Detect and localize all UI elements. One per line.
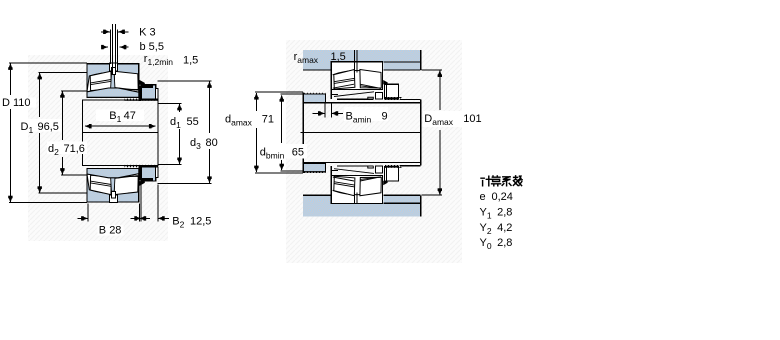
svg-text:b 5,5: b 5,5 bbox=[140, 41, 164, 53]
svg-text:D 110: D 110 bbox=[2, 97, 31, 109]
svg-text:1,5: 1,5 bbox=[331, 51, 346, 63]
svg-text:K 3: K 3 bbox=[139, 26, 156, 38]
svg-text:e: e bbox=[480, 191, 486, 203]
svg-text:d271,6: d271,6 bbox=[48, 143, 85, 157]
svg-text:B212,5: B212,5 bbox=[172, 215, 211, 229]
svg-text:1,5: 1,5 bbox=[183, 55, 198, 67]
svg-text:D196,5: D196,5 bbox=[21, 121, 59, 135]
svg-text:B 28: B 28 bbox=[99, 224, 122, 236]
svg-text:0,24: 0,24 bbox=[492, 191, 513, 203]
